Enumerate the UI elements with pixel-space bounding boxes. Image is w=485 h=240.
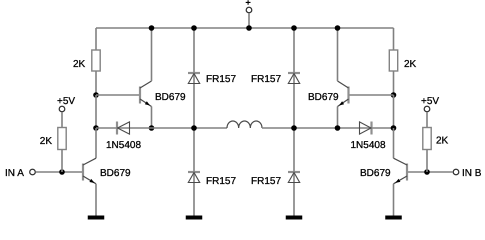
inductor L1: [227, 121, 262, 128]
wire Q3 emitter to ground: [95, 184, 97, 216]
junction IN A resistor node: [59, 169, 65, 175]
wire Q1 collector to rail: [151, 28, 153, 81]
wire top power rail: [96, 27, 394, 29]
svg-text:FR157: FR157: [206, 176, 236, 187]
junction left mid node: [93, 125, 99, 131]
wire left column base node to mid rail: [95, 95, 97, 128]
svg-text:BD679: BD679: [100, 168, 131, 179]
wire right column mid to Q4 collector: [393, 128, 395, 158]
wire left column resistor to base node: [95, 71, 97, 95]
svg-text:2K: 2K: [436, 136, 449, 147]
svg-text:IN B: IN B: [462, 168, 482, 179]
wire Q1 base: [96, 94, 139, 96]
diode FR157 top-right: [288, 73, 300, 84]
junction FR right mid: [291, 125, 297, 131]
diode 1N5408 right: [360, 122, 372, 135]
svg-text:BD679: BD679: [308, 92, 339, 103]
svg-text:1N5408: 1N5408: [106, 140, 141, 151]
wire mid rail segment 4: [294, 127, 338, 129]
wire right column top: [393, 28, 395, 50]
wire +5V right to resistor: [426, 112, 428, 127]
wire resistor to IN B line: [426, 150, 428, 173]
ground FR column right: [286, 216, 303, 220]
svg-text:IN A: IN A: [5, 168, 24, 179]
wire Q2 emitter to mid rail: [337, 107, 339, 129]
ground FR column left: [186, 216, 203, 220]
terminal IN B: [453, 169, 459, 175]
wire mid rail segment 3: [262, 127, 294, 129]
svg-text:BD679: BD679: [155, 92, 186, 103]
diode FR157 bottom-left: [188, 172, 200, 183]
ground Q3: [88, 216, 105, 220]
wire right column base node to mid rail: [393, 95, 395, 128]
wire mid rail segment right (under 1N5408): [338, 127, 394, 129]
wire mid rail segment left (under 1N5408): [96, 127, 152, 129]
wire + terminal to rail: [248, 13, 250, 28]
junction right base node: [391, 92, 397, 98]
transistor Q1 BD679 top-left: [140, 81, 152, 107]
resistor 2K mid-right: [423, 128, 431, 150]
wire right column resistor to base node: [393, 71, 395, 95]
svg-text:2K: 2K: [40, 136, 53, 147]
wire +5V left to resistor: [61, 112, 63, 127]
node + supply label: [246, 0, 251, 5]
svg-text:+5V: +5V: [421, 96, 439, 107]
svg-text:+5V: +5V: [57, 96, 75, 107]
svg-text:2K: 2K: [73, 59, 86, 70]
wire Q2 collector to rail: [337, 28, 339, 81]
svg-text:FR157: FR157: [251, 74, 281, 85]
resistor 2K mid-left: [58, 128, 66, 150]
wire Q2 base: [350, 94, 394, 96]
diode FR157 bottom-right: [288, 172, 300, 183]
diode 1N5408 left: [117, 122, 130, 135]
resistor 2K top-right: [389, 50, 397, 71]
terminal +5V left: [59, 106, 65, 112]
wire mid rail segment 2: [152, 127, 228, 129]
wire IN B to Q4 base: [408, 171, 453, 173]
svg-text:2K: 2K: [404, 59, 417, 70]
resistor 2K top-left: [92, 50, 100, 71]
junction FR left mid: [191, 125, 197, 131]
junction right mid node: [391, 125, 397, 131]
junction left base node: [93, 92, 99, 98]
svg-text:BD679: BD679: [360, 168, 391, 179]
terminal IN A: [30, 169, 36, 175]
wire IN A to Q3 base: [36, 171, 83, 173]
junction + on rail: [246, 25, 252, 31]
transistor Q4 BD679 bottom-right: [394, 158, 408, 184]
junction FR left rail: [191, 25, 197, 31]
svg-text:FR157: FR157: [206, 74, 236, 85]
wire Q1 emitter to mid rail: [151, 107, 153, 129]
junction Q2 collector rail: [335, 25, 341, 31]
wire left column top: [95, 28, 97, 50]
wire Q4 emitter to ground: [393, 184, 395, 216]
transistor Q3 BD679 bottom-left: [83, 158, 96, 184]
svg-text:FR157: FR157: [251, 176, 281, 187]
junction FR right rail: [291, 25, 297, 31]
transistor Q2 BD679 top-right: [338, 81, 349, 107]
wire left column mid to Q3 collector: [95, 128, 97, 158]
junction IN B resistor node: [424, 169, 430, 175]
wire FR column left: [193, 28, 195, 216]
junction Q2 emitter mid: [335, 125, 341, 131]
wire FR column right: [293, 28, 295, 216]
diode FR157 top-left: [188, 73, 200, 84]
terminal +5V right: [424, 106, 430, 112]
junction Q1 collector rail: [149, 25, 155, 31]
ground Q4: [385, 216, 402, 220]
junction Q1 emitter mid: [149, 125, 155, 131]
+ supply terminal: [246, 7, 252, 13]
wire resistor to IN A line: [61, 150, 63, 173]
svg-text:1N5408: 1N5408: [351, 140, 386, 151]
